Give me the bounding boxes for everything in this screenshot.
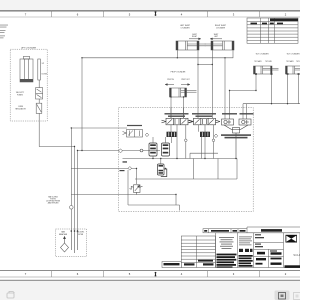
svg-text:LIFT CYLINDER: LIFT CYLINDER — [21, 47, 37, 49]
svg-text:PROP OUT: PROP OUT — [181, 79, 189, 81]
svg-text:REGULATOR: REGULATOR — [15, 107, 26, 110]
svg-text:RIGHT: RIGHT — [192, 36, 197, 38]
svg-text:CYLINDER: CYLINDER — [180, 27, 190, 29]
svg-text:CYLINDER: CYLINDER — [216, 27, 226, 29]
svg-text:LEFT: LEFT — [214, 36, 218, 38]
svg-text:TILT CYLINDER: TILT CYLINDER — [286, 54, 300, 56]
svg-text:PROP IN: PROP IN — [167, 79, 174, 81]
svg-text:PORTS: PORTS — [50, 199, 55, 201]
svg-text:PROP CYLINDER: PROP CYLINDER — [171, 72, 186, 74]
svg-text:TILT FWD: TILT FWD — [265, 61, 273, 63]
svg-text:SHIFT: SHIFT — [192, 34, 197, 36]
svg-text:TILT CYLINDER: TILT CYLINDER — [255, 54, 269, 56]
svg-text:FUSES: FUSES — [17, 94, 24, 96]
svg-text:TILT FWD: TILT FWD — [296, 61, 300, 63]
svg-text:DOWN: DOWN — [42, 74, 48, 76]
svg-text:OIL LEVEL: OIL LEVEL — [77, 232, 85, 234]
svg-text:SHIFT: SHIFT — [214, 34, 219, 36]
svg-text:SCHEMATIC: SCHEMATIC — [293, 253, 300, 257]
